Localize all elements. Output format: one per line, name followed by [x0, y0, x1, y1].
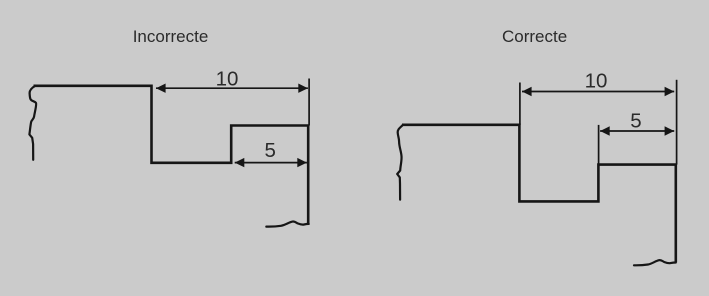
right part break line (bottom wavy)	[634, 260, 676, 265]
left dim 5 arrowhead right	[297, 158, 307, 167]
left dim 10 arrowhead left	[156, 84, 166, 93]
left part outline	[34, 86, 309, 225]
left dim 10 arrowhead right	[298, 84, 308, 93]
right dim 5 arrowhead right	[665, 126, 675, 135]
left dimension line 5	[235, 162, 307, 164]
right dim 10 arrowhead left	[522, 87, 532, 96]
left dimension line 10	[156, 87, 308, 89]
left dim 5 arrowhead left	[235, 158, 245, 167]
right extension line middle (for 5)	[598, 125, 600, 165]
svg-text:5: 5	[630, 110, 641, 133]
svg-text:10: 10	[585, 70, 608, 93]
right dim 10 arrowhead right	[665, 87, 675, 96]
svg-text:Correcte: Correcte	[502, 27, 567, 46]
svg-text:Incorrecte: Incorrecte	[133, 27, 209, 46]
left part break line (left wavy)	[29, 86, 36, 160]
right dim 5 arrowhead left	[600, 126, 610, 135]
right part break line (left wavy)	[397, 125, 403, 200]
svg-text:10: 10	[216, 67, 239, 90]
svg-text:5: 5	[264, 139, 275, 162]
left extension line above right edge	[308, 79, 310, 126]
right dimension line 5	[600, 130, 674, 132]
right part outline	[402, 125, 676, 263]
left part break line (bottom wavy)	[266, 222, 308, 227]
right dimension line 10	[522, 91, 674, 93]
right extension line right	[676, 80, 678, 165]
right extension line left (for 10)	[519, 83, 521, 125]
